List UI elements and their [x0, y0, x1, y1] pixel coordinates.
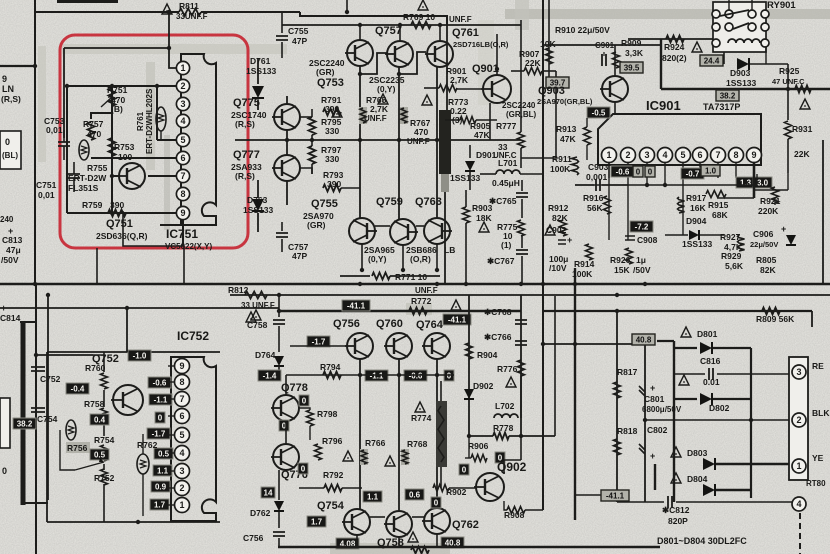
resistor R794 — [323, 372, 341, 379]
svg-text:R913: R913 — [556, 124, 577, 134]
relay switch arms — [720, 10, 749, 16]
IC751 pin 9 — [176, 206, 189, 219]
wire pin6 bus — [91, 157, 176, 159]
svg-text:BLK: BLK — [812, 408, 830, 418]
svg-text:R752: R752 — [94, 473, 115, 483]
svg-text:Q903: Q903 — [538, 85, 565, 97]
svg-text:R809 56K: R809 56K — [756, 314, 795, 324]
wire x754 pin9 down — [753, 163, 756, 198]
IC901 pin 7 — [711, 148, 726, 163]
svg-text:0: 0 — [5, 137, 10, 147]
wire bottom trio links — [375, 225, 390, 227]
svg-text:-1.7: -1.7 — [312, 337, 326, 346]
svg-text:3: 3 — [796, 367, 801, 377]
svg-text:1SS133: 1SS133 — [243, 205, 274, 215]
thermistor R761 oval — [156, 107, 166, 131]
wire Q757 Q761 link — [399, 52, 426, 74]
svg-text:R757: R757 — [83, 119, 104, 129]
svg-text:R811: R811 — [179, 1, 199, 11]
voltage box 40.8 c — [441, 537, 464, 548]
gray resistor R765 — [359, 107, 367, 124]
wire x447 top — [446, 30, 448, 110]
wire IC752 top — [47, 351, 220, 353]
svg-text:LN: LN — [2, 84, 14, 94]
svg-text:Q755: Q755 — [311, 198, 338, 210]
IC901 package outline — [598, 114, 761, 165]
svg-text:+: + — [781, 224, 786, 234]
svg-text:2,7K: 2,7K — [370, 104, 389, 114]
svg-text:R777: R777 — [496, 121, 517, 131]
transistor Q753 — [347, 40, 373, 66]
svg-text:4: 4 — [180, 116, 185, 126]
svg-text:1: 1 — [179, 500, 184, 510]
svg-text:9: 9 — [751, 150, 756, 160]
gray resistor R767 — [400, 107, 408, 124]
voltage box 0 q778 — [299, 395, 309, 406]
svg-text:/10V: /10V — [549, 263, 567, 273]
svg-text:6: 6 — [180, 153, 185, 163]
svg-text:-7.2: -7.2 — [635, 222, 649, 231]
svg-text:5: 5 — [179, 430, 184, 440]
connector box right — [789, 357, 808, 480]
svg-text:(R,S): (R,S) — [235, 171, 255, 181]
svg-text:Q775: Q775 — [233, 97, 260, 109]
voltage box -1.7 b — [307, 336, 330, 347]
wire Q752 net — [103, 352, 105, 372]
wire top bus left — [35, 11, 179, 13]
resistor R809 — [762, 308, 780, 315]
voltage box 0.9 ic752 — [151, 481, 170, 492]
IC752 pin 8 — [175, 375, 190, 390]
svg-text:R911: R911 — [552, 154, 572, 164]
svg-text:(B): (B) — [111, 104, 123, 114]
svg-text:✱C768: ✱C768 — [484, 307, 512, 317]
svg-text:Q753: Q753 — [317, 77, 344, 89]
svg-text:R762: R762 — [137, 440, 158, 450]
svg-text:470: 470 — [87, 129, 101, 139]
capacitor C752 — [34, 353, 38, 357]
svg-text:R755: R755 — [87, 163, 108, 173]
svg-text:Q759: Q759 — [376, 196, 403, 208]
wire Q756 base bus — [290, 345, 347, 347]
resistor R770 — [411, 547, 429, 554]
thick bar bottom left — [21, 322, 26, 505]
wire v x521 low — [520, 295, 522, 436]
wire pin9 down — [123, 211, 184, 246]
voltage box 0 q776 — [298, 463, 308, 474]
resistor R901 — [424, 87, 439, 89]
IC751 package outline — [181, 54, 216, 225]
IC752 package outline — [171, 357, 216, 521]
svg-text:(GR): (GR) — [307, 220, 326, 230]
resistor R752 — [101, 469, 108, 485]
svg-text:(0,Y): (0,Y) — [377, 84, 396, 94]
transistor Q755 — [349, 218, 375, 244]
svg-text:D804: D804 — [687, 474, 708, 484]
svg-text:100: 100 — [118, 152, 132, 162]
svg-text:7: 7 — [179, 394, 184, 404]
svg-text:R915: R915 — [708, 200, 729, 210]
svg-text:330: 330 — [325, 126, 339, 136]
svg-text:R916: R916 — [583, 193, 604, 203]
transistor Q752 — [113, 385, 143, 415]
power resistor dark bar R773 — [439, 110, 451, 174]
transistor Q761 — [427, 41, 453, 67]
red annotation box — [60, 35, 248, 248]
svg-text:0.5: 0.5 — [94, 450, 106, 459]
voltage box 39.5 — [620, 62, 643, 73]
voltage box -41.1 a — [342, 300, 370, 311]
wire q902 collector — [503, 460, 505, 474]
svg-text:390: 390 — [110, 200, 124, 210]
svg-text:R766: R766 — [365, 438, 386, 448]
svg-text:220K: 220K — [758, 206, 779, 216]
voltage box 0 q778b — [279, 420, 289, 431]
svg-text:(R,S): (R,S) — [235, 119, 255, 129]
svg-text:7: 7 — [180, 171, 185, 181]
diode D764 — [274, 356, 284, 366]
svg-text:C802: C802 — [647, 425, 668, 435]
svg-text:3: 3 — [180, 99, 185, 109]
wire stub LN — [0, 65, 35, 67]
svg-text:0.01: 0.01 — [703, 377, 720, 387]
svg-text:(O,R): (O,R) — [410, 254, 431, 264]
voltage box 1.1 ic752 — [153, 465, 172, 476]
wire y420 row — [645, 419, 793, 421]
svg-text:Q761: Q761 — [452, 27, 479, 39]
transistor Q758 — [386, 511, 412, 537]
svg-text:2SA970(GR,BL): 2SA970(GR,BL) — [537, 97, 593, 106]
IC752 pin 1 — [175, 498, 190, 513]
voltage box -1.1 b — [365, 370, 388, 381]
svg-text:0.6: 0.6 — [409, 490, 421, 499]
svg-text:R768: R768 — [407, 439, 428, 449]
svg-text:0: 0 — [302, 396, 307, 405]
svg-text:Q763: Q763 — [415, 196, 442, 208]
svg-text:47K: 47K — [560, 134, 576, 144]
junction dots rail — [33, 282, 37, 286]
transistor Q760 — [386, 333, 412, 359]
svg-text:R925: R925 — [779, 66, 800, 76]
warning triangle d — [479, 222, 489, 232]
resistor R751 — [109, 88, 116, 106]
wire x788 lower — [787, 173, 789, 190]
svg-text:R908: R908 — [504, 510, 525, 520]
wire rail x549 top — [548, 0, 550, 89]
resistor R931 — [787, 89, 789, 120]
IC752 pin 3 — [175, 464, 190, 479]
svg-text:R753: R753 — [114, 142, 135, 152]
svg-text:R772: R772 — [411, 296, 432, 306]
capacitor C756 — [273, 532, 285, 536]
IC751 pin 1 — [176, 61, 189, 74]
IC901 pin 4 — [658, 148, 673, 163]
resistor R771 — [340, 275, 370, 277]
wire vertical x112 — [111, 86, 113, 213]
svg-text:38.2: 38.2 — [720, 91, 736, 100]
svg-text:820P: 820P — [668, 516, 688, 526]
voltage box -0.5 — [587, 107, 610, 118]
capacitor C757 — [281, 222, 283, 231]
svg-text:0: 0 — [648, 167, 653, 176]
svg-text:+: + — [567, 235, 572, 245]
svg-text:C751: C751 — [36, 180, 57, 190]
top border fragment — [57, 0, 118, 3]
svg-text:-0.6: -0.6 — [153, 378, 167, 387]
svg-text:0.5: 0.5 — [158, 449, 170, 458]
diode D901 — [469, 145, 471, 158]
svg-text:33UNF.F: 33UNF.F — [176, 12, 208, 21]
warning triangle f — [451, 300, 461, 310]
voltage box 0.5b — [90, 449, 109, 460]
svg-text:-1.0: -1.0 — [133, 351, 147, 360]
svg-text:14: 14 — [264, 488, 273, 497]
voltage box 1.1 c — [363, 491, 382, 502]
voltage box -1.7 ic752 — [147, 428, 170, 439]
svg-text:-1.7: -1.7 — [152, 429, 166, 438]
svg-text:C902: C902 — [546, 225, 567, 235]
svg-text:Q778: Q778 — [281, 382, 308, 394]
svg-text:D762: D762 — [250, 508, 271, 518]
transistor Q759 — [390, 219, 416, 245]
IC901 pin 9 — [747, 148, 762, 163]
diode D801 — [674, 347, 697, 349]
wire v x399 low — [398, 359, 400, 512]
svg-text:0,01: 0,01 — [38, 190, 55, 200]
svg-text:R761: R761 — [136, 111, 145, 131]
svg-text:68K: 68K — [712, 210, 728, 220]
svg-text:C906: C906 — [753, 229, 774, 239]
svg-text:820(2): 820(2) — [662, 53, 687, 63]
svg-text:C801: C801 — [644, 394, 665, 404]
IC751 pin 8 — [176, 187, 189, 200]
svg-text:2: 2 — [180, 81, 185, 91]
voltage box 40.8 right — [632, 334, 655, 345]
wire top trio collectors — [359, 25, 361, 40]
gray resistor R766 — [360, 449, 368, 465]
wire v x437 low — [436, 359, 438, 509]
capacitor C758 — [278, 295, 280, 317]
wire v x674 thick — [673, 341, 675, 502]
IC901 pin 8 — [729, 148, 744, 163]
thermistor R756 — [66, 420, 76, 440]
transistor Q903 — [602, 76, 628, 102]
svg-text:UNF.F: UNF.F — [407, 137, 430, 146]
voltage box 1.3 ic901 — [736, 177, 755, 188]
diode D763 — [257, 180, 259, 198]
svg-text:1: 1 — [606, 150, 611, 160]
svg-text:-1.4: -1.4 — [263, 371, 277, 380]
svg-text:5,6K: 5,6K — [725, 261, 744, 271]
voltage box 4.08 — [336, 538, 359, 549]
capacitor C753 — [58, 142, 70, 146]
svg-text:15K: 15K — [614, 265, 630, 275]
voltage box 38.2 b — [716, 90, 739, 101]
wire base bus y375 — [286, 374, 454, 376]
wire v x36 lower — [35, 284, 37, 554]
svg-text:38.2: 38.2 — [17, 419, 33, 428]
wire v x437 mid — [436, 67, 438, 218]
svg-text:(0,Y): (0,Y) — [368, 254, 387, 264]
svg-text:7: 7 — [715, 150, 720, 160]
svg-text:R805: R805 — [756, 255, 777, 265]
svg-text:2: 2 — [625, 150, 630, 160]
transistor Q764 — [424, 333, 450, 359]
svg-text:+: + — [650, 383, 655, 393]
svg-text:R760: R760 — [85, 363, 106, 373]
resistor R793 — [323, 185, 341, 192]
svg-text:D801~D804 30DL2FC: D801~D804 30DL2FC — [657, 536, 747, 546]
svg-text:RT80: RT80 — [806, 479, 826, 488]
svg-text:R914: R914 — [574, 259, 595, 269]
connector pin 1 — [792, 459, 806, 473]
svg-text:6: 6 — [697, 150, 702, 160]
warning triangle a — [332, 107, 342, 117]
svg-text:47P: 47P — [292, 251, 307, 261]
svg-text:9: 9 — [2, 74, 7, 84]
svg-text:1.0: 1.0 — [705, 166, 717, 175]
svg-text:82K: 82K — [760, 265, 776, 275]
connector label 0 BL — [0, 131, 21, 169]
svg-text:0.9: 0.9 — [155, 482, 167, 491]
svg-text:D901: D901 — [476, 150, 497, 160]
wire IC751 bottom — [160, 224, 216, 226]
svg-text:(BL): (BL) — [2, 151, 18, 160]
scan streak left vertical — [38, 46, 46, 162]
svg-text:0.4: 0.4 — [94, 415, 106, 424]
svg-text:Q777: Q777 — [233, 149, 260, 161]
svg-text:0: 0 — [301, 464, 306, 473]
svg-text:C755: C755 — [288, 26, 309, 36]
wire x441 — [440, 381, 442, 401]
wire v x469 — [468, 295, 470, 436]
svg-text:R929: R929 — [721, 251, 742, 261]
svg-text:-0.4: -0.4 — [71, 384, 85, 393]
svg-text:100K: 100K — [550, 164, 571, 174]
resistor R760 — [101, 373, 108, 389]
svg-text:Q760: Q760 — [376, 318, 403, 330]
svg-text:R917: R917 — [686, 193, 707, 203]
svg-text:Q757: Q757 — [375, 25, 402, 37]
svg-text:0: 0 — [158, 413, 163, 422]
warning triangle c — [422, 95, 432, 105]
svg-text:0: 0 — [462, 465, 467, 474]
svg-text:D903: D903 — [730, 68, 751, 78]
wire vertical left bus — [34, 0, 36, 284]
svg-text:0: 0 — [2, 466, 7, 476]
svg-text:47 UNF.C: 47 UNF.C — [772, 77, 805, 86]
svg-text:22μ/50V: 22μ/50V — [750, 240, 778, 249]
thermistor R755 ERT-D2W — [79, 140, 89, 160]
wire q754 row links — [370, 516, 385, 518]
wire pin2 bus — [112, 85, 176, 87]
svg-text:39.5: 39.5 — [624, 63, 640, 72]
wire v x360 mid — [359, 66, 361, 218]
warning triangle e — [246, 312, 256, 322]
svg-text:5: 5 — [180, 135, 185, 145]
voltage box -41.1 b — [443, 314, 471, 325]
IC751 pin 7 — [176, 169, 189, 182]
svg-text:0: 0 — [447, 371, 452, 380]
svg-text:3: 3 — [644, 150, 649, 160]
svg-text:2: 2 — [796, 415, 801, 425]
IC752 pin 6 — [175, 409, 190, 424]
svg-text:R798: R798 — [317, 409, 338, 419]
wire IC752 bottom — [47, 521, 220, 523]
transistor Q754 — [344, 509, 370, 535]
wire top bus mid — [201, 11, 300, 13]
transistor Q751 — [119, 163, 145, 189]
diode D802 — [674, 398, 697, 400]
svg-text:Q756: Q756 — [333, 318, 360, 330]
wire relay top leads — [728, 0, 730, 10]
relay contacts row2 — [712, 23, 720, 31]
svg-text:6: 6 — [179, 411, 184, 421]
voltage box 14 — [261, 487, 275, 498]
voltage box 0 q902 — [459, 464, 469, 475]
wire x521 upper — [520, 20, 522, 132]
svg-text:-1.1: -1.1 — [154, 395, 168, 404]
svg-text:R796: R796 — [322, 436, 343, 446]
svg-text:C754: C754 — [37, 414, 58, 424]
wire pin2 left — [67, 85, 112, 87]
svg-text:D902: D902 — [473, 381, 494, 391]
wire h unfc — [521, 157, 556, 159]
dashed wire below pin4 — [799, 513, 801, 554]
transistor Q775 — [274, 104, 300, 130]
capacitor C755 — [281, 25, 283, 33]
svg-text:R931: R931 — [792, 124, 813, 134]
svg-text:3.0: 3.0 — [757, 178, 769, 187]
voltage box -41.1 right — [575, 494, 601, 496]
wire ic901 low bus — [575, 184, 757, 186]
svg-text:(1): (1) — [501, 240, 512, 250]
svg-text:C756: C756 — [243, 533, 264, 543]
wire top bus right — [300, 12, 447, 25]
wire pin7 stub — [148, 175, 176, 177]
svg-text:390: 390 — [327, 179, 341, 189]
svg-text:330: 330 — [325, 154, 339, 164]
relay contacts row1 — [712, 10, 720, 18]
svg-text:0: 0 — [636, 167, 641, 176]
svg-text:22K: 22K — [525, 58, 541, 68]
warning triangle g — [800, 99, 810, 109]
svg-text:L701: L701 — [498, 158, 518, 168]
wire thick y89 — [661, 88, 830, 90]
wire v x645 — [644, 341, 646, 502]
IC751 pin 6 — [176, 151, 189, 164]
wire rail y295 — [230, 294, 830, 296]
white connector box left — [0, 398, 10, 448]
svg-text:R756: R756 — [67, 443, 88, 453]
svg-text:0,01: 0,01 — [46, 125, 63, 135]
svg-text:✱C767: ✱C767 — [487, 256, 515, 266]
diode D761 — [257, 58, 259, 84]
voltage box 0 r906 — [495, 452, 505, 463]
wire vertical x157 — [156, 86, 158, 140]
resistor R759 — [108, 210, 126, 217]
svg-text:1SS133: 1SS133 — [682, 239, 713, 249]
transistor Q777 — [274, 155, 300, 181]
IC901 pin 6 — [693, 148, 708, 163]
capacitor C812 — [617, 501, 664, 503]
svg-text:FL351S: FL351S — [68, 183, 99, 193]
scan streak ERT label vertical — [146, 62, 155, 170]
resistor R776 — [518, 360, 525, 376]
voltage box 0 ic901a — [633, 166, 643, 177]
svg-text:47μ: 47μ — [6, 245, 21, 255]
voltage box -0.4 — [66, 383, 89, 394]
